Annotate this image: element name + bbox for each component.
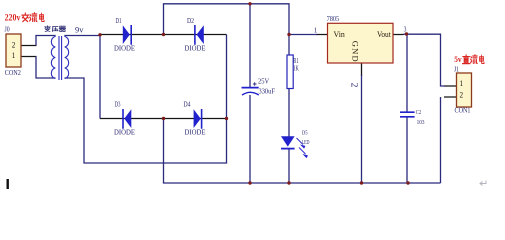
svg-text:2: 2 bbox=[460, 90, 464, 99]
svg-text:CON2: CON2 bbox=[5, 68, 21, 77]
svg-text:D1: D1 bbox=[116, 16, 122, 25]
svg-text:5v: 5v bbox=[454, 55, 462, 64]
svg-text:1: 1 bbox=[12, 51, 16, 60]
svg-text:DIODE: DIODE bbox=[185, 43, 206, 52]
svg-text:220v: 220v bbox=[5, 13, 21, 24]
svg-text:330uF: 330uF bbox=[259, 87, 275, 96]
svg-text:1: 1 bbox=[460, 79, 464, 88]
svg-text:2: 2 bbox=[348, 83, 358, 88]
svg-text:7805: 7805 bbox=[327, 14, 340, 23]
svg-text:DIODE: DIODE bbox=[185, 127, 206, 136]
svg-text:Vout: Vout bbox=[377, 29, 391, 39]
svg-text:3: 3 bbox=[404, 25, 407, 34]
svg-text:103: 103 bbox=[417, 119, 425, 126]
svg-text:LED: LED bbox=[302, 139, 310, 146]
svg-text:D3: D3 bbox=[115, 99, 121, 108]
svg-text:GND: GND bbox=[351, 41, 361, 62]
svg-text:D5: D5 bbox=[302, 129, 308, 136]
svg-text:25V: 25V bbox=[258, 77, 270, 86]
svg-text:9v: 9v bbox=[75, 25, 84, 35]
svg-text:D4: D4 bbox=[184, 99, 191, 108]
svg-text:C2: C2 bbox=[416, 109, 421, 116]
svg-text:J0: J0 bbox=[5, 25, 10, 34]
svg-text:2: 2 bbox=[12, 41, 16, 50]
svg-text:CON1: CON1 bbox=[455, 106, 471, 115]
svg-text:1K: 1K bbox=[293, 64, 299, 73]
svg-text:Vin: Vin bbox=[334, 29, 346, 39]
svg-text:D2: D2 bbox=[187, 16, 194, 25]
svg-text:DIODE: DIODE bbox=[114, 43, 135, 52]
svg-text:1: 1 bbox=[314, 27, 318, 35]
svg-text:J1: J1 bbox=[454, 67, 459, 74]
svg-text:DIODE: DIODE bbox=[114, 127, 135, 136]
